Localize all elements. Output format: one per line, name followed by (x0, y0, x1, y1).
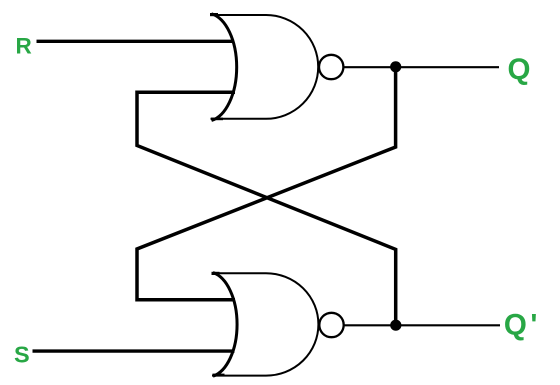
nor-gate U2 input arc top hook (212, 272, 220, 275)
nor-gate U2 input arc bottom hook (213, 374, 225, 377)
nor-gate U1 input arc top hook (210, 13, 218, 16)
svg-text:Q': Q' (504, 308, 537, 341)
nor-gate U1 output bubble (319, 55, 343, 79)
nor-gate U1 input arc (212, 14, 237, 121)
svg-text:R: R (16, 34, 32, 59)
wire U1 output to Q label (344, 66, 499, 68)
wire S input to U2 (33, 349, 235, 352)
wire feedback: U1 output node down to U2 input (137, 92, 396, 325)
wire U2 output to Q' label (344, 324, 500, 326)
nor-gate U1 body (211, 15, 319, 119)
nor-gate U1 input arc bottom hook (211, 118, 223, 121)
wire R input to U1 (37, 40, 235, 43)
nor-gate U2 body (212, 273, 318, 375)
node Q' junction (390, 320, 401, 331)
node Q junction (390, 61, 401, 72)
nor-gate U2 output bubble (319, 313, 343, 337)
svg-text:Q: Q (508, 53, 531, 86)
svg-text:S: S (14, 342, 30, 368)
nor-gate U2 input arc (213, 273, 237, 377)
wire feedback: U2 output node up to U1 top-gate input (horiz y92, vert x137, diagonal, vert x395.6) (137, 67, 396, 300)
